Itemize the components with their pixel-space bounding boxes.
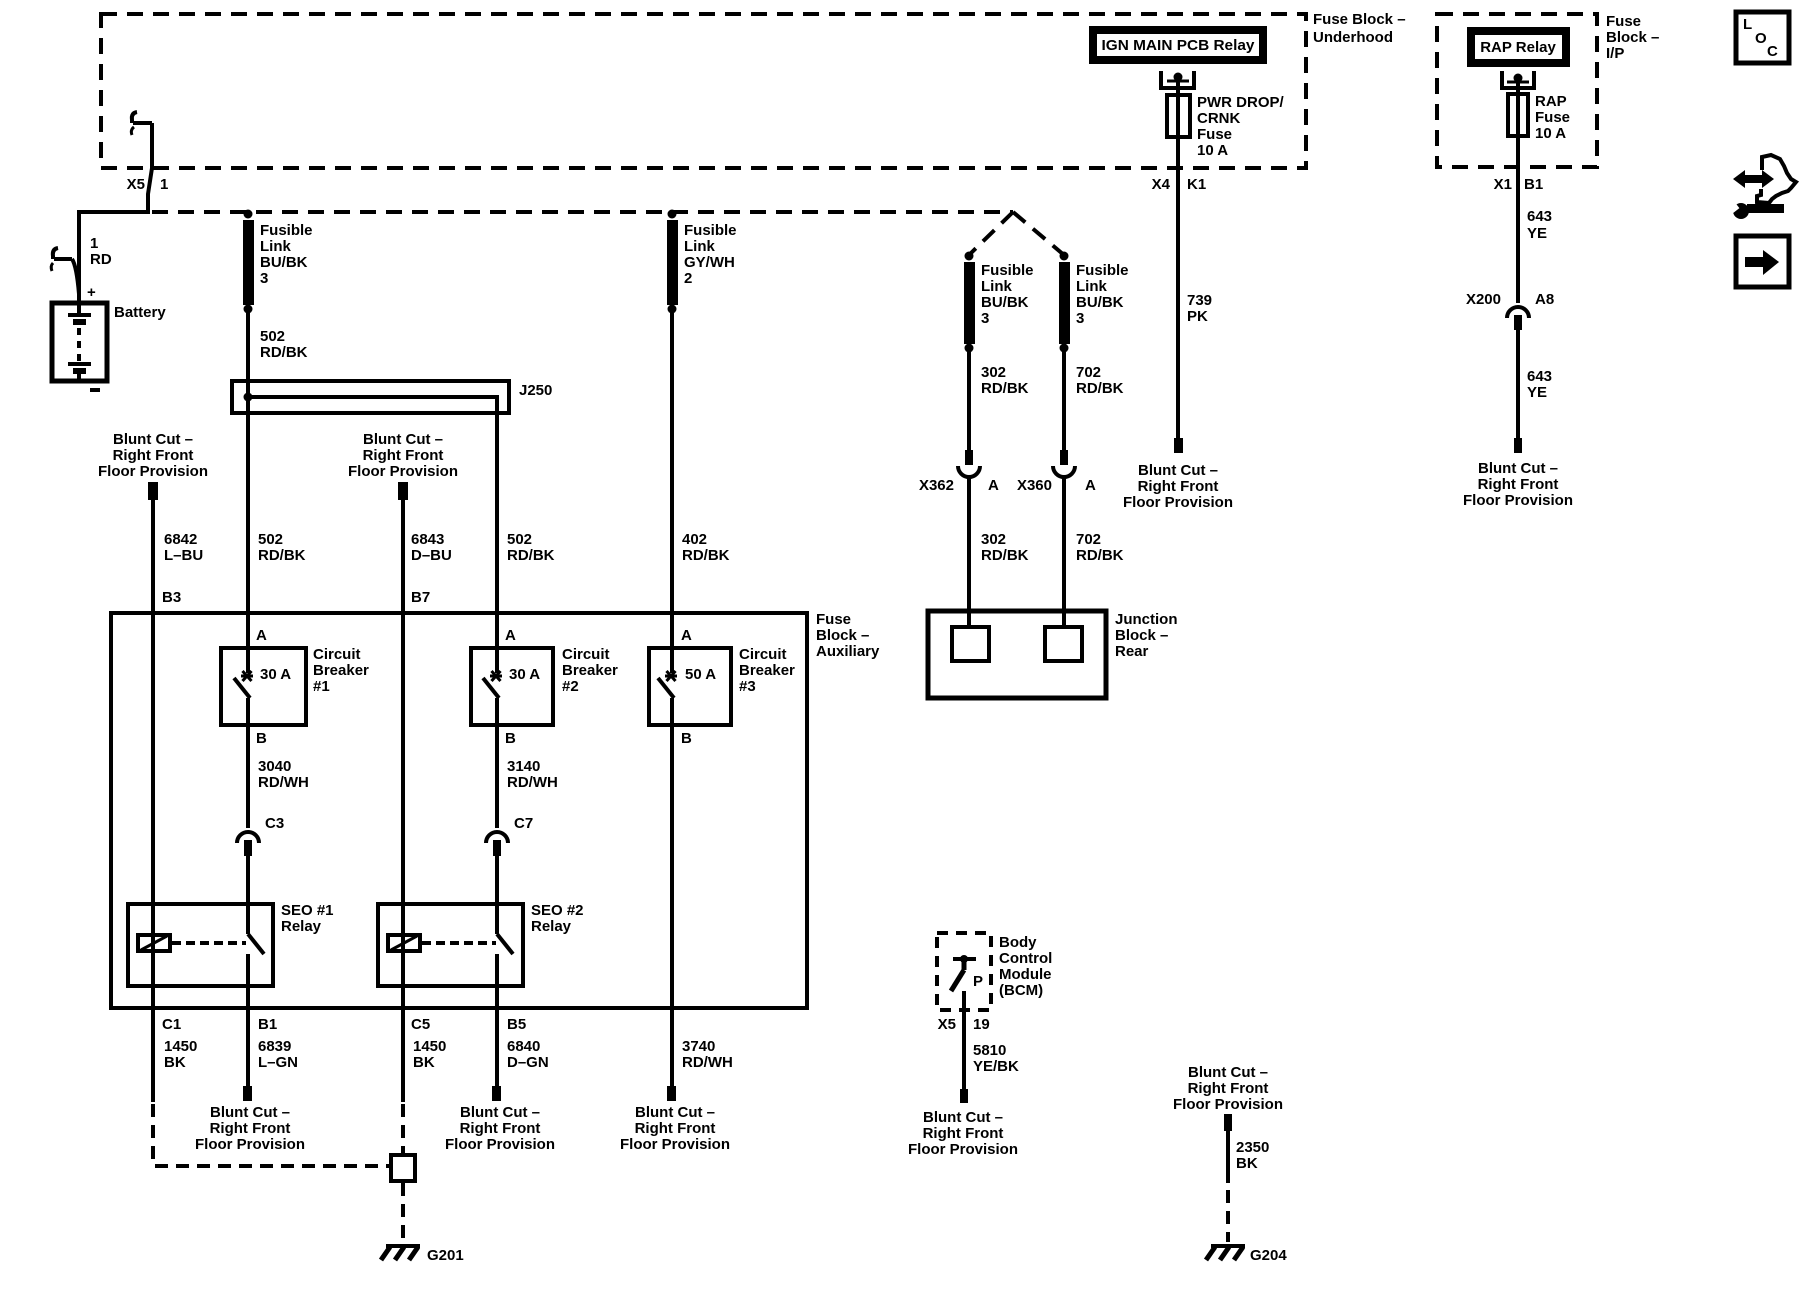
svg-text:Fuse: Fuse [1197,126,1232,143]
svg-text:RD/WH: RD/WH [682,1054,733,1071]
svg-text:X4: X4 [1152,176,1171,193]
svg-text:Right Front: Right Front [1138,478,1219,495]
svg-text:C: C [1767,43,1778,60]
svg-text:L–GN: L–GN [258,1054,298,1071]
svg-text:A: A [256,627,267,644]
svg-text:Relay: Relay [531,918,572,935]
svg-text:Blunt Cut –: Blunt Cut – [363,431,443,448]
svg-text:Fuse: Fuse [1606,13,1641,30]
svg-text:3040: 3040 [258,758,291,775]
svg-text:C1: C1 [162,1016,181,1033]
svg-text:Right Front: Right Front [113,447,194,464]
svg-text:Breaker: Breaker [739,662,795,679]
svg-text:X5: X5 [127,176,145,193]
svg-text:CRNK: CRNK [1197,110,1240,127]
svg-text:6842: 6842 [164,531,197,548]
svg-text:BK: BK [1236,1155,1258,1172]
svg-text:C5: C5 [411,1016,430,1033]
svg-text:Breaker: Breaker [562,662,618,679]
svg-text:PK: PK [1187,308,1208,325]
svg-text:B: B [256,730,267,747]
svg-text:Auxiliary: Auxiliary [816,643,880,660]
svg-text:+: + [87,284,96,301]
svg-text:P: P [973,973,983,990]
svg-text:Link: Link [1076,278,1107,295]
svg-text:C3: C3 [265,815,284,832]
svg-text:Right Front: Right Front [460,1120,541,1137]
svg-text:Fusible: Fusible [981,262,1034,279]
svg-text:6840: 6840 [507,1038,540,1055]
svg-text:RD/BK: RD/BK [1076,547,1124,564]
svg-text:Circuit: Circuit [739,646,787,663]
svg-text:D–BU: D–BU [411,547,452,564]
svg-text:Floor Provision: Floor Provision [98,463,208,480]
svg-text:6839: 6839 [258,1038,291,1055]
svg-text:Fuse: Fuse [816,611,851,628]
svg-text:A: A [681,627,692,644]
svg-text:1: 1 [160,176,168,193]
svg-text:RD/BK: RD/BK [260,344,308,361]
svg-text:Fuse Block –: Fuse Block – [1313,11,1406,28]
svg-text:RD/BK: RD/BK [981,380,1029,397]
svg-text:K1: K1 [1187,176,1206,193]
svg-text:X5: X5 [938,1016,956,1033]
svg-text:BK: BK [164,1054,186,1071]
svg-text:Block –: Block – [1115,627,1168,644]
svg-text:2350: 2350 [1236,1139,1269,1156]
svg-text:RAP Relay: RAP Relay [1480,39,1556,56]
svg-text:B1: B1 [1524,176,1543,193]
svg-text:Battery: Battery [114,304,166,321]
svg-text:Floor Provision: Floor Provision [348,463,458,480]
svg-text:502: 502 [258,531,283,548]
svg-text:Right Front: Right Front [363,447,444,464]
svg-text:RD/BK: RD/BK [258,547,306,564]
svg-text:#2: #2 [562,678,579,695]
svg-text:A8: A8 [1535,291,1554,308]
svg-text:C7: C7 [514,815,533,832]
svg-text:3740: 3740 [682,1038,715,1055]
svg-text:YE: YE [1527,225,1547,242]
svg-text:RD/WH: RD/WH [258,774,309,791]
svg-text:BK: BK [413,1054,435,1071]
svg-text:BU/BK: BU/BK [981,294,1029,311]
svg-text:BU/BK: BU/BK [260,254,308,271]
svg-text:Module: Module [999,966,1052,983]
svg-text:B: B [505,730,516,747]
svg-text:Blunt Cut –: Blunt Cut – [210,1104,290,1121]
svg-text:643: 643 [1527,368,1552,385]
svg-text:Right Front: Right Front [923,1125,1004,1142]
svg-text:B5: B5 [507,1016,526,1033]
svg-text:Link: Link [684,238,715,255]
svg-text:X360: X360 [1017,477,1052,494]
svg-text:Fusible: Fusible [684,222,737,239]
svg-text:702: 702 [1076,531,1101,548]
svg-text:I/P: I/P [1606,45,1624,62]
svg-text:Body: Body [999,934,1037,951]
svg-text:Fusible: Fusible [1076,262,1129,279]
svg-text:6843: 6843 [411,531,444,548]
svg-text:Right Front: Right Front [1188,1080,1269,1097]
svg-text:739: 739 [1187,292,1212,309]
svg-text:502: 502 [260,328,285,345]
svg-text:Circuit: Circuit [562,646,610,663]
svg-text:G201: G201 [427,1247,464,1264]
svg-text:YE/BK: YE/BK [973,1058,1019,1075]
svg-text:RD/BK: RD/BK [507,547,555,564]
svg-text:30 A: 30 A [509,666,540,683]
svg-text:3: 3 [1076,310,1084,327]
svg-text:Blunt Cut –: Blunt Cut – [1478,460,1558,477]
svg-text:502: 502 [507,531,532,548]
svg-text:Floor Provision: Floor Provision [445,1136,555,1153]
svg-text:RD/BK: RD/BK [682,547,730,564]
svg-text:643: 643 [1527,208,1552,225]
svg-text:Circuit: Circuit [313,646,361,663]
svg-text:Junction: Junction [1115,611,1178,628]
svg-text:RD/BK: RD/BK [1076,380,1124,397]
svg-text:Link: Link [981,278,1012,295]
svg-text:Blunt Cut –: Blunt Cut – [113,431,193,448]
svg-text:10 A: 10 A [1535,125,1566,142]
svg-text:5810: 5810 [973,1042,1006,1059]
svg-text:BU/BK: BU/BK [1076,294,1124,311]
svg-text:1450: 1450 [413,1038,446,1055]
svg-text:Right Front: Right Front [1478,476,1559,493]
svg-text:SEO #2: SEO #2 [531,902,584,919]
svg-text:B3: B3 [162,589,181,606]
svg-text:Floor Provision: Floor Provision [1463,492,1573,509]
svg-text:3140: 3140 [507,758,540,775]
svg-text:Floor Provision: Floor Provision [1123,494,1233,511]
svg-text:Blunt Cut –: Blunt Cut – [923,1109,1003,1126]
svg-text:Block –: Block – [816,627,869,644]
svg-text:#3: #3 [739,678,756,695]
svg-text:Blunt Cut –: Blunt Cut – [1138,462,1218,479]
svg-text:IGN MAIN PCB Relay: IGN MAIN PCB Relay [1102,37,1256,54]
svg-text:30 A: 30 A [260,666,291,683]
svg-text:L: L [1743,16,1752,33]
svg-text:10 A: 10 A [1197,142,1228,159]
svg-text:Floor Provision: Floor Provision [195,1136,305,1153]
svg-text:Relay: Relay [281,918,322,935]
svg-text:RD/WH: RD/WH [507,774,558,791]
svg-text:702: 702 [1076,364,1101,381]
svg-text:A: A [505,627,516,644]
svg-text:1450: 1450 [164,1038,197,1055]
svg-text:SEO #1: SEO #1 [281,902,334,919]
svg-text:Block –: Block – [1606,29,1659,46]
svg-text:Right Front: Right Front [635,1120,716,1137]
svg-text:B: B [681,730,692,747]
svg-text:3: 3 [981,310,989,327]
svg-text:D–GN: D–GN [507,1054,549,1071]
svg-text:50 A: 50 A [685,666,716,683]
svg-text:402: 402 [682,531,707,548]
svg-text:Floor Provision: Floor Provision [908,1141,1018,1158]
svg-text:(BCM): (BCM) [999,982,1043,999]
svg-text:A: A [1085,477,1096,494]
svg-text:Floor Provision: Floor Provision [620,1136,730,1153]
svg-text:Fuse: Fuse [1535,109,1570,126]
svg-text:B1: B1 [258,1016,277,1033]
svg-text:302: 302 [981,364,1006,381]
svg-text:RD: RD [90,251,112,268]
svg-text:RD/BK: RD/BK [981,547,1029,564]
svg-text:19: 19 [973,1016,990,1033]
svg-text:X200: X200 [1466,291,1501,308]
svg-text:Control: Control [999,950,1052,967]
svg-text:J250: J250 [519,382,552,399]
svg-text:X362: X362 [919,477,954,494]
svg-text:B7: B7 [411,589,430,606]
svg-text:YE: YE [1527,384,1547,401]
svg-text:O: O [1755,30,1767,47]
svg-text:Link: Link [260,238,291,255]
svg-text:Floor Provision: Floor Provision [1173,1096,1283,1113]
svg-text:Blunt Cut –: Blunt Cut – [635,1104,715,1121]
svg-text:1: 1 [90,235,98,252]
svg-text:GY/WH: GY/WH [684,254,735,271]
svg-text:G204: G204 [1250,1247,1287,1264]
svg-text:2: 2 [684,270,692,287]
svg-text:Breaker: Breaker [313,662,369,679]
svg-text:Rear: Rear [1115,643,1149,660]
svg-text:Underhood: Underhood [1313,29,1393,46]
svg-text:A: A [988,477,999,494]
svg-text:Fusible: Fusible [260,222,313,239]
svg-text:L–BU: L–BU [164,547,203,564]
svg-text:Blunt Cut –: Blunt Cut – [460,1104,540,1121]
svg-text:PWR DROP/: PWR DROP/ [1197,94,1285,111]
svg-text:#1: #1 [313,678,330,695]
svg-text:Right Front: Right Front [210,1120,291,1137]
svg-text:Blunt Cut –: Blunt Cut – [1188,1064,1268,1081]
svg-text:3: 3 [260,270,268,287]
svg-text:302: 302 [981,531,1006,548]
svg-text:X1: X1 [1494,176,1512,193]
svg-text:RAP: RAP [1535,93,1567,110]
